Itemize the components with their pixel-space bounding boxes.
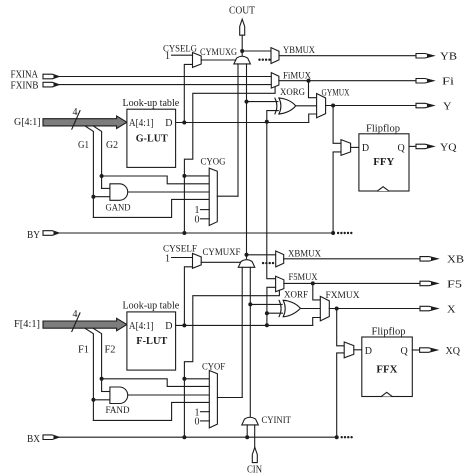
mux CYSELG xyxy=(163,45,201,68)
node D to XORG/F5MUX column xyxy=(265,120,269,124)
mux CYOF xyxy=(202,362,225,428)
flipflop FFX xyxy=(362,327,413,397)
mux FFX input select xyxy=(344,342,354,358)
node G1 branch xyxy=(91,195,95,199)
wire CYINIT output to CYMUXF right input xyxy=(249,267,251,416)
node BY to select column xyxy=(182,231,186,235)
svg-text:XB: XB xyxy=(447,255,464,266)
svg-text:XBMUX: XBMUX xyxy=(288,249,321,259)
svg-text:GAND: GAND xyxy=(106,203,131,213)
lut F-LUT box xyxy=(123,301,180,371)
svg-text:F5: F5 xyxy=(447,279,462,290)
wire F1 to FAND input 2 xyxy=(93,399,110,401)
mux CYSELF xyxy=(163,245,201,269)
svg-text:CIN: CIN xyxy=(247,465,262,476)
wire Y branch down to FFY input mux xyxy=(333,106,341,144)
svg-text:G[4:1]: G[4:1] xyxy=(14,117,41,128)
input bus G[4:1] xyxy=(14,107,127,129)
svg-text:XORG: XORG xyxy=(280,88,305,98)
wire FFY Q to YQ xyxy=(409,145,416,147)
svg-text:XQ: XQ xyxy=(446,346,461,357)
wire F2 to CYOF input 2 xyxy=(102,379,210,387)
svg-text:D: D xyxy=(165,321,172,332)
svg-text:4: 4 xyxy=(73,107,78,118)
svg-text:FFY: FFY xyxy=(373,157,394,168)
node carry F junction xyxy=(245,253,249,257)
mux CYMUXF xyxy=(203,248,255,267)
wire CYMUXG left input from CYOG xyxy=(237,64,239,196)
svg-text:CYINIT: CYINIT xyxy=(262,416,292,426)
wire G1 to GAND input 2 xyxy=(93,196,110,198)
svg-text:CYMUXG: CYMUXG xyxy=(200,48,237,58)
flipflop FFY xyxy=(359,124,409,192)
wire tap F2 from bus xyxy=(93,328,101,391)
svg-text:F[4:1]: F[4:1] xyxy=(14,319,40,330)
svg-text:F1: F1 xyxy=(78,345,89,356)
mux F5MUX xyxy=(276,273,318,292)
mux CYOG xyxy=(201,158,226,226)
wire F5MUX select from BX column xyxy=(184,290,279,437)
wire F5MUX output to F5 xyxy=(284,282,420,284)
constant 1 stub CYOG xyxy=(195,205,210,216)
wire G-LUT D output line xyxy=(176,122,309,124)
node FiMUX select to CYOG branch xyxy=(182,174,186,178)
svg-text:A[4:1]: A[4:1] xyxy=(129,321,154,332)
gate XORF xyxy=(279,291,308,317)
node BY to FFY mux xyxy=(331,231,335,235)
wire FXINB to FiMUX input 2 xyxy=(59,84,271,86)
node F5 branch xyxy=(311,281,315,285)
svg-text:Look-up table: Look-up table xyxy=(123,98,180,109)
wire node to YBMUX input 1 xyxy=(242,50,271,52)
wire XORG output to GYMUX input 2 xyxy=(296,105,317,107)
wire FFX mux output to D xyxy=(354,349,362,351)
wire carry branch to XORF input 1 xyxy=(250,303,282,305)
wire F-LUT D output line xyxy=(176,324,313,326)
node CYINIT BX junction xyxy=(245,435,249,439)
node Fi branch xyxy=(307,79,311,83)
gate GAND xyxy=(106,184,131,214)
wire FFX Q to XQ xyxy=(412,349,419,351)
mux CYMUXG xyxy=(200,48,250,64)
lut G-LUT box xyxy=(123,98,180,168)
svg-text:GYMUX: GYMUX xyxy=(322,89,350,99)
svg-text:Flipflop: Flipflop xyxy=(366,124,400,135)
wire CYOG output up to CYMUXG xyxy=(217,195,238,197)
wire FiMUX output to Fi xyxy=(279,80,416,82)
svg-text:CYOG: CYOG xyxy=(201,158,226,168)
output arrow XQ xyxy=(420,346,461,357)
wire CYSELG input 2 from G-LUT D xyxy=(184,64,192,122)
wire CYSELG input 1 constant xyxy=(172,54,193,56)
wire D line riser to GYMUX input 3 xyxy=(309,114,317,123)
node BX to select column xyxy=(182,435,186,439)
input BX xyxy=(27,434,59,445)
svg-text:4: 4 xyxy=(73,309,78,320)
gate FAND xyxy=(106,387,130,416)
dotted continuation BX right xyxy=(341,436,353,438)
svg-text:G2: G2 xyxy=(106,140,118,151)
svg-text:1: 1 xyxy=(165,254,170,265)
input bus F[4:1] xyxy=(14,309,127,331)
svg-text:A[4:1]: A[4:1] xyxy=(129,118,154,129)
svg-text:Flipflop: Flipflop xyxy=(372,327,406,338)
wire COUT to node xyxy=(241,35,243,55)
mux FiMUX xyxy=(271,72,311,89)
wire FXMUX output to X xyxy=(329,308,420,310)
output arrow Y xyxy=(416,101,452,112)
wire CYOF output up to CYMUXF xyxy=(217,397,242,399)
mux YBMUX xyxy=(271,46,315,64)
svg-text:YBMUX: YBMUX xyxy=(283,46,315,56)
node G2 branch xyxy=(100,174,104,178)
node BX to FFX mux xyxy=(335,435,339,439)
arrow tip fills xyxy=(54,54,438,439)
dotted continuation BY right xyxy=(337,232,353,234)
wire CYINIT left input from BX xyxy=(246,425,248,437)
svg-text:FXINB: FXINB xyxy=(11,80,39,91)
svg-text:1: 1 xyxy=(165,51,170,62)
wire carry to XBMUX input 1 xyxy=(247,254,276,256)
mux GYMUX xyxy=(317,89,350,118)
wire tap G1 from bus xyxy=(85,126,93,217)
input FXINA xyxy=(11,69,59,80)
wire FiMUX select from BY column xyxy=(184,87,275,233)
wire XBMUX output to XB xyxy=(284,258,420,260)
wire FXINA to FiMUX input 1 xyxy=(59,76,271,78)
svg-text:D: D xyxy=(362,143,369,154)
node carry XORG branch xyxy=(245,100,249,104)
mux XBMUX xyxy=(276,249,321,267)
svg-text:Look-up table: Look-up table xyxy=(123,301,180,312)
node D to CYSELG xyxy=(182,121,186,125)
COUT output arrow xyxy=(229,6,255,36)
output arrow YQ xyxy=(416,142,457,153)
node F D to XORF/F5MUX column xyxy=(265,323,269,327)
wire carry branch to XORG input 1 xyxy=(247,101,278,103)
wire Fi branch to GYMUX input 1 xyxy=(309,81,317,98)
wire GAND output to CYOG input 3 xyxy=(128,191,209,193)
output arrow F5 xyxy=(420,279,462,290)
wire YBMUX output to YB xyxy=(279,55,416,57)
wire CYINIT right input from CIN xyxy=(254,425,256,447)
wire F-LUT D up to F5MUX input 2 xyxy=(267,287,276,325)
wire branch to CYOG input 1 xyxy=(184,175,209,177)
wire G1 under-route to CYOG input 4 xyxy=(93,199,209,217)
svg-text:Q: Q xyxy=(398,143,406,154)
wire tap F1 from bus xyxy=(85,328,93,420)
input CIN arrow xyxy=(247,447,262,475)
svg-text:0: 0 xyxy=(195,214,200,225)
svg-text:YQ: YQ xyxy=(440,142,457,153)
output arrow XB xyxy=(420,255,464,266)
svg-text:BY: BY xyxy=(27,230,40,241)
wire F2 to FAND input 1 xyxy=(102,391,110,393)
wire F1 under-route to CYOF input 4 xyxy=(93,402,209,420)
input FXINB xyxy=(11,80,59,91)
node XORF lower branch xyxy=(265,311,269,315)
node Y branch xyxy=(331,104,335,108)
svg-text:F2: F2 xyxy=(105,345,116,356)
node X branch xyxy=(335,307,339,311)
svg-text:COUT: COUT xyxy=(229,6,255,17)
wire BY up to FFY input mux xyxy=(333,152,341,233)
wire CYSELF input 1 constant xyxy=(172,257,193,259)
svg-text:G-LUT: G-LUT xyxy=(136,134,168,145)
svg-text:D: D xyxy=(165,118,172,129)
wire BX line xyxy=(59,436,337,438)
dotted continuation into YBMUX input 2 xyxy=(258,59,270,61)
wire branch to XORF input 2 xyxy=(267,312,283,314)
node COUT junction xyxy=(240,49,244,53)
svg-text:0: 0 xyxy=(195,417,200,428)
svg-text:Y: Y xyxy=(443,101,452,112)
wire F D riser to FXMUX input 3 xyxy=(313,318,321,326)
wire carry chain CYMUXF to CYMUXG xyxy=(246,64,248,255)
wire CYMUXF output node xyxy=(246,255,248,259)
wire F5 branch to FXMUX input 1 xyxy=(313,283,321,300)
svg-text:FXMUX: FXMUX xyxy=(326,291,360,301)
wire FFY mux output to D xyxy=(351,146,359,148)
wire FAND output to CYOF input 3 xyxy=(128,394,210,396)
wire GYMUX output to Y xyxy=(326,105,416,107)
svg-text:X: X xyxy=(447,304,456,315)
wire CYMUXF left input from CYOF xyxy=(241,267,243,397)
output arrow YB xyxy=(416,52,457,63)
svg-text:BX: BX xyxy=(27,434,41,445)
svg-text:D: D xyxy=(365,346,372,357)
svg-text:F-LUT: F-LUT xyxy=(136,336,167,347)
node F D to CYSELF xyxy=(182,323,186,327)
wire CYSELF output to CYMUXF select xyxy=(201,261,240,263)
svg-text:CYMUXF: CYMUXF xyxy=(203,248,241,258)
wire BX up to FFX input mux xyxy=(337,353,345,437)
svg-text:FFX: FFX xyxy=(376,365,397,376)
gate XORG xyxy=(275,88,305,114)
constant 1 stub CYOF xyxy=(195,407,210,418)
wire branch to CYOF input 1 xyxy=(184,378,209,380)
svg-text:F5MUX: F5MUX xyxy=(289,273,318,283)
wire CYSELG output to CYMUXG select xyxy=(201,59,235,61)
wire G2 to CYOG input 2 xyxy=(102,176,210,184)
node F5MUX select to CYOF branch xyxy=(182,377,186,381)
svg-text:FAND: FAND xyxy=(106,406,130,416)
constant 0 stub CYOF xyxy=(195,417,210,428)
output arrow X xyxy=(420,304,456,315)
constant 0 stub CYOG xyxy=(195,214,210,225)
node F2 branch xyxy=(100,377,104,381)
mux FFY input select xyxy=(341,140,351,156)
svg-text:G1: G1 xyxy=(78,140,89,151)
svg-text:FXINA: FXINA xyxy=(11,69,39,80)
node F1 branch xyxy=(91,398,95,402)
wire G-LUT D to XORG input 2 xyxy=(267,111,278,122)
svg-text:CYOF: CYOF xyxy=(202,362,225,372)
svg-text:Fi: Fi xyxy=(442,77,454,88)
wire G2 to GAND input 1 xyxy=(102,187,110,189)
wire tap G2 from bus xyxy=(93,126,101,188)
wire CYSELF input 2 from F-LUT D xyxy=(184,267,192,326)
wire XORF output to FXMUX input 2 xyxy=(300,308,320,310)
node carry XORF branch xyxy=(248,302,252,306)
svg-text:XORF: XORF xyxy=(284,291,308,301)
mux CYINIT xyxy=(242,416,291,426)
wire G-LUT D down to F5MUX input 1 xyxy=(267,122,276,279)
wire X branch down to FFX input mux xyxy=(337,309,345,346)
dotted continuation into XBMUX input 2 xyxy=(262,262,274,264)
mux FXMUX xyxy=(320,291,359,321)
input BY xyxy=(27,230,59,241)
svg-text:YB: YB xyxy=(440,52,457,63)
wire BY line xyxy=(59,232,333,234)
svg-text:Q: Q xyxy=(401,346,409,357)
output arrow Fi xyxy=(416,77,454,88)
